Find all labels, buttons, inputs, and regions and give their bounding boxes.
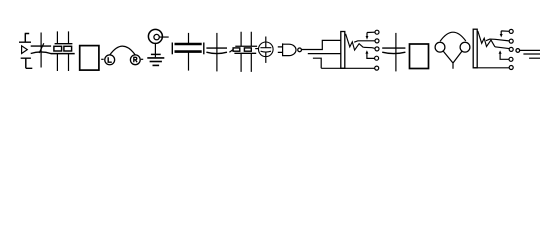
trimmer network C5 lead tail (229, 50, 233, 53)
capacitor C7 stem (395, 33, 397, 72)
wire C (313, 58, 321, 68)
feedthrough capacitor C3 right post (203, 43, 205, 55)
relay S1 contact A (375, 30, 379, 34)
relay S2 up arrow (499, 50, 509, 59)
capacitor C4 stem (216, 33, 218, 72)
wire A from gate (301, 40, 340, 49)
circled capacitor C6 bottom stem (265, 52, 267, 63)
piezo transducer XD1 bottom plate lead (21, 58, 33, 68)
relay S2 wire to contact G (486, 39, 509, 41)
trimmer network C5 box 1 (233, 48, 240, 51)
relay S2 contact K (509, 57, 513, 61)
headphones left earpiece (435, 42, 445, 52)
trimmer capacitor C1 adjust slash (39, 43, 44, 53)
relay S2 zigzag (478, 31, 495, 47)
stereo link letter L (108, 57, 112, 62)
next glyph output bubble (516, 49, 520, 53)
circled capacitor C6 curved plate (261, 50, 271, 53)
headphones cord Y (443, 51, 462, 69)
piezo transducer XD1 triangle (22, 46, 28, 54)
relay S2 core rectangle (473, 29, 477, 68)
feedthrough capacitor C3 plate 1 (175, 43, 202, 46)
feedthrough capacitor C3 bottom stem (188, 52, 190, 71)
ground bar 2 (150, 61, 162, 63)
NAND gate U2 output bubble (298, 48, 302, 52)
dual trimmer C2 box 1 (54, 46, 62, 51)
capacitor C7 curved plate (382, 52, 405, 53)
relay S1 contact B (375, 39, 379, 43)
circled capacitor C6 straight plate (260, 47, 271, 49)
pickup stem to ground (154, 43, 156, 57)
relay S2 down arrow (500, 31, 509, 38)
next glyph wire B (523, 53, 540, 55)
dual trimmer C2 box 2 (64, 46, 72, 51)
relay S1 up arrow (365, 50, 374, 58)
feedthrough capacitor C3 plate 2 (175, 50, 202, 53)
next glyph wire A (520, 49, 540, 51)
pickup inner circle (154, 34, 159, 39)
trimmer network C5 bottom plate (234, 52, 256, 54)
dual trimmer C2 top plate (55, 43, 73, 45)
NAND gate U2 input stubs (278, 47, 283, 53)
ground crossbar (151, 53, 161, 55)
circled capacitor C6 top stem (265, 37, 267, 49)
relay S1 bottom wire to contact E (321, 67, 375, 69)
trimmer network C5 bottom stems (241, 53, 251, 72)
capacitor C4 curved plate (206, 52, 227, 53)
circled capacitor C6 circle (259, 42, 274, 57)
relay S1 down arrow (366, 32, 375, 39)
capacitor C4 straight plate (206, 47, 227, 49)
dual trimmer C2 top stems (57, 31, 68, 43)
wire B (308, 53, 341, 55)
box component U3 (410, 44, 429, 69)
relay S1 core rectangle (341, 32, 345, 69)
relay S1 wire to contact B (354, 41, 375, 42)
next glyph wire C (529, 57, 540, 59)
NAND gate U2 body (283, 43, 296, 56)
trimmer network C5 box 2 (244, 48, 251, 51)
trimmer network C5 top stems (241, 32, 251, 47)
trimmer capacitor C1 top plate (31, 45, 51, 47)
feedthrough capacitor C3 top stem (188, 33, 190, 44)
trimmer capacitor C1 stem (40, 33, 42, 68)
dual trimmer C2 bottom plate (51, 53, 75, 55)
ground bar 1 (147, 57, 164, 59)
relay S1 zigzag (346, 34, 364, 50)
circled capacitor C6 left lead (255, 48, 258, 50)
relay S2 contact F (509, 29, 513, 33)
relay S1 contact E (375, 66, 379, 70)
stereo link left lead (101, 58, 104, 60)
relay S2 bottom wire (473, 67, 509, 69)
piezo transducer XD1 top plate lead (19, 34, 31, 43)
dual trimmer C2 bottom stems (57, 54, 68, 71)
capacitor C7 straight plate (382, 47, 405, 49)
relay S1 wire to contact C (363, 47, 375, 48)
stereo link arc (110, 46, 135, 55)
relay S2 wire to contact H (495, 47, 510, 49)
box component U1 (80, 46, 99, 71)
relay S2 contact G (509, 39, 513, 43)
stereo link circle R (130, 55, 140, 65)
relay S2 contact H (509, 47, 513, 51)
feedthrough capacitor C3 left post (171, 43, 173, 55)
pickup outer circle (148, 29, 162, 43)
headphones headband arc (440, 32, 466, 41)
pickup right lead (159, 36, 168, 38)
relay S1 contact C (375, 47, 379, 51)
trimmer network C5 top plate (235, 45, 257, 47)
trimmer capacitor C1 curved plate (31, 52, 51, 54)
stereo link circle L (105, 55, 115, 65)
stereo link letter R (134, 57, 137, 62)
stereo link right lead (141, 58, 143, 60)
relay S1 contact D (375, 56, 379, 60)
relay S2 contact J (509, 66, 513, 70)
headphones right earpiece (460, 42, 470, 52)
ground bar 3 (153, 64, 160, 66)
